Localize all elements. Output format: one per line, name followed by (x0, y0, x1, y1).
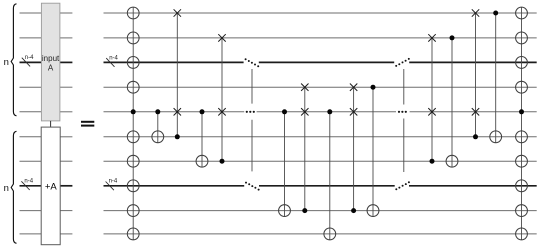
CNOT target on q1 (column 1) (127, 7, 139, 19)
CNOT target on q9 (column 1) (127, 205, 139, 217)
swap X on q4 (column 10) (350, 84, 357, 91)
CNOT target on q7 (column 17) (516, 155, 528, 167)
+A gate box (41, 127, 60, 245)
equals sign top bar (81, 121, 94, 123)
svg-text:input: input (42, 54, 60, 63)
bus slash n-4 on left qubit 3 (22, 55, 34, 66)
swap X on q5 (column 13) (428, 108, 435, 115)
bus slash n-4 on left qubit 8 (21, 179, 33, 190)
bus wire qubit 8 segment 3 (409, 185, 537, 187)
broken gate vertical upper (ellipsis region right) (403, 69, 405, 105)
top register brace (11, 4, 16, 116)
wire qubit 5 segment 2 (257, 111, 396, 113)
ellipsis break qubit 3 (right, ascending) (395, 58, 410, 67)
ellipsis dots on qubit 5 (left) (246, 111, 255, 113)
swap X on q1 (column 15) (472, 9, 479, 16)
broken gate vertical lower (ellipsis region left) (251, 120, 253, 172)
swap X on q5 (column 3) (174, 108, 181, 115)
CNOT target on q8 (column 1) (127, 180, 139, 192)
svg-text:n-4: n-4 (109, 55, 118, 61)
input A gate box (41, 3, 60, 121)
control dot on q5 (column 7) (282, 109, 287, 114)
CNOT target on q2 (column 1) (127, 32, 139, 44)
wire stub left of +A box, qubit 6 (20, 136, 42, 138)
svg-text:A: A (48, 63, 54, 72)
gate column 10 vertical (353, 87, 355, 210)
swap X on q5 (column 5) (218, 108, 225, 115)
CNOT target on q9 (column 11) (367, 205, 379, 217)
gate column 14 vertical (451, 38, 453, 167)
CNOT target on q3 (column 1) (127, 57, 139, 69)
broken gate vertical upper (ellipsis region left) (251, 69, 253, 104)
gate column 9 vertical (329, 112, 331, 240)
CNOT target on q6 (column 17) (516, 131, 528, 143)
CNOT target on q2 (column 17) (516, 32, 528, 44)
control dot on q9 (column 8) (302, 208, 307, 213)
control dot on q7 (column 5) (220, 159, 225, 164)
wire qubit 10 (104, 233, 537, 235)
bus wire qubit 3 segment 1 (104, 61, 244, 63)
swap X on q1 (column 3) (174, 9, 181, 16)
wire stub right of input-A box, qubit 4 (60, 86, 73, 88)
control dot on q6 (column 3) (175, 134, 180, 139)
CNOT target on q7 (column 4) (196, 155, 208, 167)
bus wire stub left of input-A box, qubit 3 (20, 61, 42, 63)
control dot on q4 (column 11) (371, 85, 376, 90)
CNOT target on q10 (column 17) (516, 228, 528, 240)
CNOT target on q6 (column 2) (152, 131, 164, 143)
wire stub right of +A box, qubit 9 (60, 210, 72, 212)
bus wire stub right of input-A box, qubit 3 (60, 61, 73, 63)
wire stub left of +A box, qubit 7 (20, 160, 42, 162)
wire stub left of input-A box, qubit 2 (20, 37, 42, 39)
wire stub right of input-A box, qubit 2 (60, 37, 73, 39)
CNOT target on q8 (column 17) (516, 180, 528, 192)
control dot on q1 (column 16) (493, 11, 498, 16)
bus wire qubit 8 segment 1 (104, 185, 245, 187)
gate column 3 vertical (176, 13, 178, 137)
CNOT target on q9 (column 7) (279, 205, 291, 217)
swap X on q2 (column 5) (218, 34, 225, 41)
wire stub right of +A box, qubit 10 (60, 233, 72, 235)
equals sign bottom bar (81, 125, 94, 127)
wire stub left of +A box, qubit 9 (20, 210, 42, 212)
svg-text:n: n (4, 57, 9, 68)
ellipsis break qubit 8 (left, descending) (245, 182, 260, 191)
bottom register brace (11, 131, 16, 243)
broken gate vertical lower (ellipsis region right) (403, 119, 405, 173)
wire qubit 5 segment 3 (410, 111, 537, 113)
CNOT target on q4 (column 1) (127, 81, 139, 93)
bus wire qubit 3 segment 2 (259, 61, 394, 63)
wire stub right of +A box, qubit 7 (60, 160, 72, 162)
swap X on q5 (column 15) (472, 108, 479, 115)
wire qubit 9 (104, 210, 537, 212)
gate column 11 vertical (372, 87, 374, 216)
CNOT target on q3 (column 17) (516, 57, 528, 69)
wire stub right of +A box, qubit 6 (60, 136, 72, 138)
control wire from input-A box to +A box (50, 121, 52, 127)
svg-text:n-4: n-4 (109, 179, 118, 185)
bus slash n-4 on right qubit 3 (106, 55, 118, 67)
gate column 7 vertical (284, 112, 286, 217)
wire stub right of input-A box, qubit 5 (60, 111, 73, 113)
CNOT target on q4 (column 17) (516, 81, 528, 93)
control dot on q2 (column 14) (450, 35, 455, 40)
bus slash n-4 on right qubit 8 (106, 179, 118, 191)
swap X on q5 (column 10) (350, 108, 357, 115)
swap X on q2 (column 13) (428, 34, 435, 41)
wire qubit 6 (104, 136, 537, 138)
control dot on q9 (column 10) (351, 208, 356, 213)
gate column 17 vertical (control q5, targets all) (521, 7, 523, 240)
bus wire qubit 8 segment 2 (259, 185, 395, 187)
CNOT target on q1 (column 17) (516, 7, 528, 19)
swap X on q5 (column 8) (301, 108, 308, 115)
svg-text:n-4: n-4 (24, 179, 33, 185)
CNOT target on q6 (column 16) (490, 131, 502, 143)
wire stub left of input-A box, qubit 5 (20, 111, 42, 113)
svg-text:n: n (4, 183, 9, 194)
CNOT target on q7 (column 14) (446, 155, 458, 167)
CNOT target on q7 (column 1) (127, 155, 139, 167)
control dot on q5 (column 1) (131, 109, 136, 114)
control dot on q5 (column 4) (200, 109, 205, 114)
control dot on q5 (column 17) (519, 109, 524, 114)
svg-text:n-4: n-4 (25, 55, 34, 61)
control dot on q7 (column 13) (430, 159, 435, 164)
gate column 2 vertical (157, 112, 159, 143)
bus wire stub left of +A box, qubit 8 (20, 185, 42, 187)
CNOT target on q10 (column 9) (324, 228, 336, 240)
bus wire qubit 3 segment 3 (409, 61, 537, 63)
wire qubit 1 (104, 12, 537, 14)
wire qubit 2 (104, 37, 537, 39)
gate column 13 vertical (431, 38, 433, 161)
control dot on q5 (column 2) (155, 109, 160, 114)
ellipsis dots on qubit 5 (right) (398, 111, 407, 113)
gate column 8 vertical (304, 87, 306, 210)
ellipsis break qubit 8 (right, ascending) (395, 181, 410, 190)
wire qubit 7 (104, 160, 537, 162)
wire stub left of input-A box, qubit 1 (20, 12, 42, 14)
swap X on q4 (column 8) (301, 84, 308, 91)
wire qubit 4 (104, 86, 537, 88)
control dot on q6 (column 15) (473, 134, 478, 139)
wire stub left of input-A box, qubit 4 (20, 86, 42, 88)
gate column 4 vertical (201, 112, 203, 167)
gate column 15 vertical (475, 13, 477, 137)
wire stub left of +A box, qubit 10 (20, 233, 42, 235)
CNOT target on q6 (column 1) (127, 131, 139, 143)
wire qubit 5 segment 1 (104, 111, 245, 113)
ellipsis break qubit 3 (left, descending) (245, 58, 260, 67)
svg-text:+A: +A (45, 181, 58, 192)
CNOT target on q9 (column 17) (516, 205, 528, 217)
wire stub right of input-A box, qubit 1 (60, 12, 73, 14)
control dot on q5 (column 9) (327, 109, 332, 114)
gate column 5 vertical (221, 38, 223, 161)
CNOT target on q10 (column 1) (127, 228, 139, 240)
bus wire stub right of +A box, qubit 8 (60, 185, 72, 187)
gate column 1 vertical (control q5, targets all) (132, 7, 134, 240)
gate column 16 vertical (495, 13, 497, 143)
